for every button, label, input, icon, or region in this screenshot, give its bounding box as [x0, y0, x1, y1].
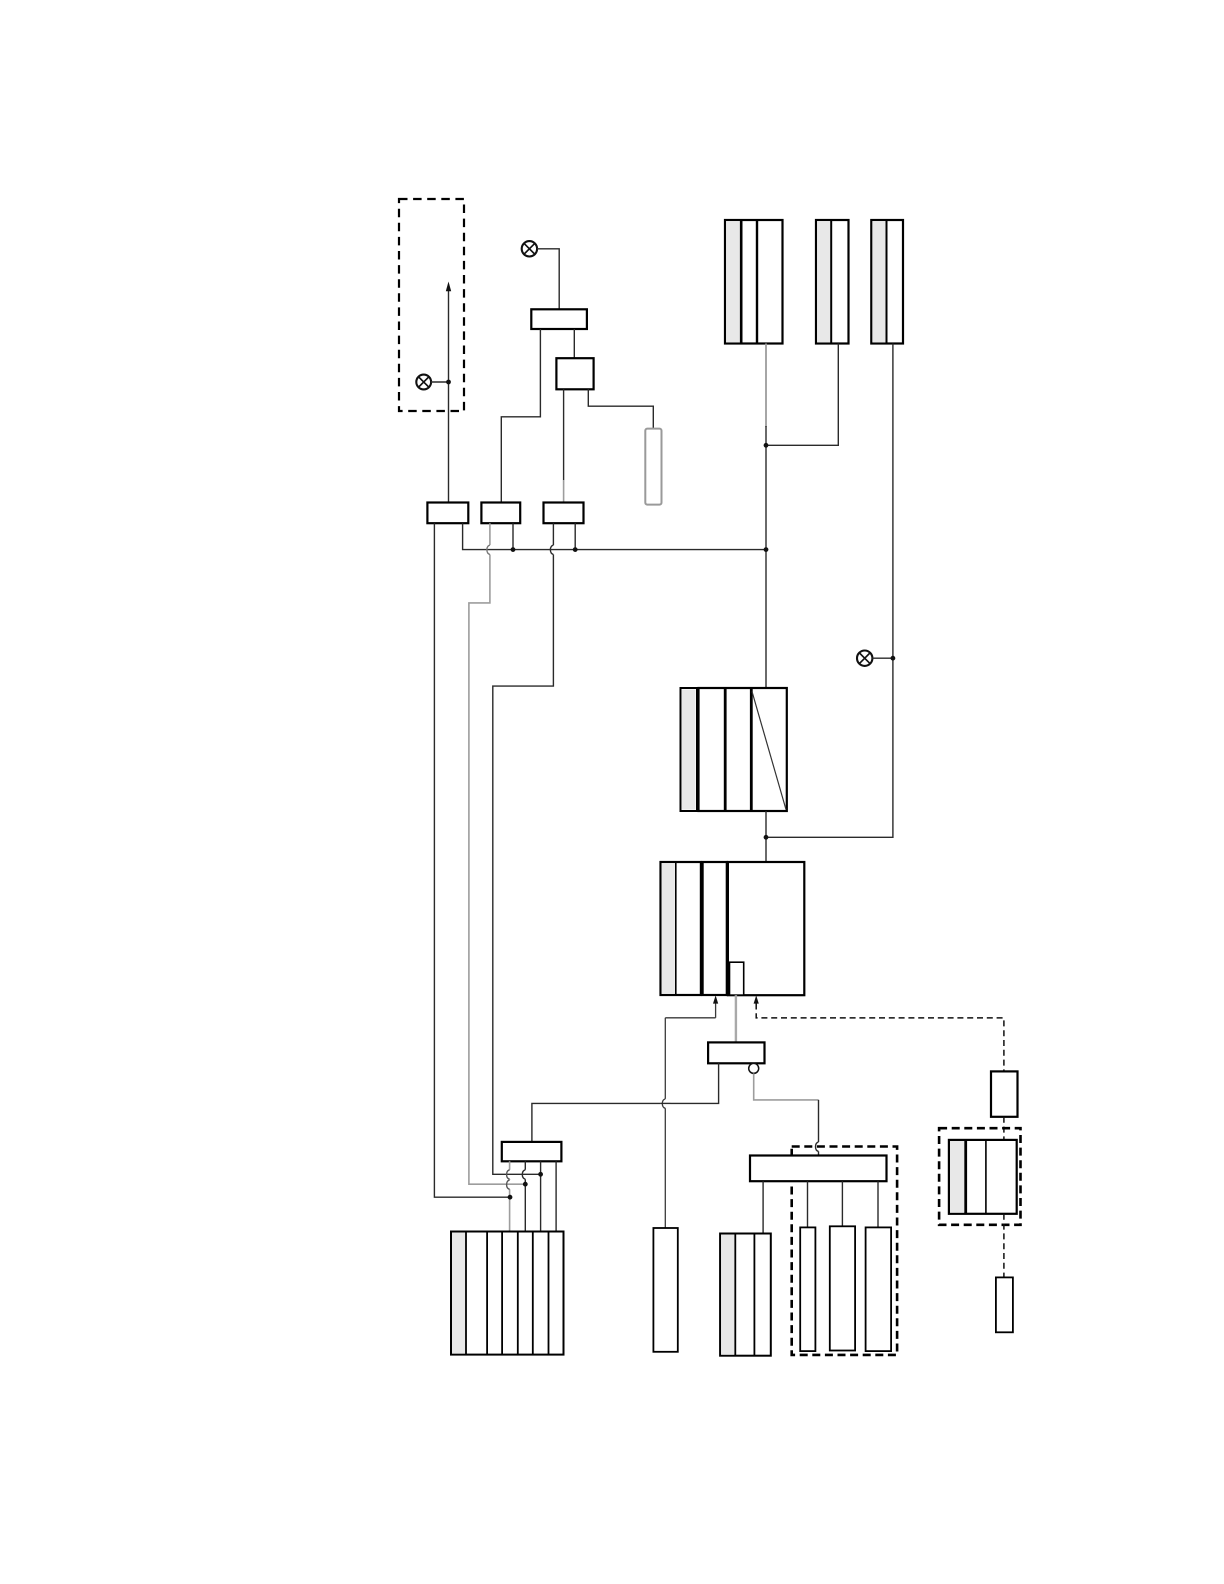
wire (connector C right lead)	[574, 523, 576, 549]
node (C on bus)	[573, 547, 578, 552]
switch S1	[531, 309, 587, 329]
wire (dashed control line with arrow)	[754, 995, 1004, 1071]
node (bus junction at relay feed)	[764, 547, 769, 552]
wire (grey feed from control unit to coil)	[735, 995, 737, 1042]
wire (vertical from resistor to arrow, with hop)	[664, 1018, 666, 1228]
wire (J1 down to relay)	[765, 426, 767, 688]
wire (X4 lead1 grey, with two hops)	[509, 1161, 511, 1231]
connector A	[427, 503, 468, 524]
relay K1	[681, 688, 787, 811]
wire hop (over coil feed line)	[662, 1099, 665, 1108]
wire hop (C lead over bus)	[550, 545, 553, 554]
glow plug 3	[866, 1227, 892, 1351]
contact circle under coil	[749, 1063, 759, 1073]
node (lead2 junction)	[523, 1182, 528, 1187]
wire (dashed, J6 down to sensor 2)	[1003, 1214, 1005, 1278]
wire (speed signal, vertical with arrow)	[446, 282, 451, 503]
distribution bar	[750, 1156, 887, 1182]
wire (connector A right lead to bus)	[463, 523, 766, 549]
switch S2	[556, 358, 593, 389]
dashed enclosure (right bottom group)	[792, 1147, 897, 1355]
wire (S2 to fuse)	[588, 389, 653, 428]
wire (J2 branch)	[766, 344, 838, 446]
node (junction under relay)	[764, 835, 769, 840]
node (B on bus)	[511, 547, 516, 552]
glow plug 2	[830, 1226, 855, 1350]
junction block J6 (in dashed enclosure)	[949, 1140, 1017, 1214]
coil (solenoid)	[708, 1042, 764, 1063]
wire (S2 to connector C, grey part)	[563, 480, 565, 503]
wire (J3 long vertical)	[766, 344, 893, 838]
node (junction on meter wire)	[446, 380, 451, 385]
dashed enclosure (sensor block)	[939, 1128, 1020, 1225]
sensor (small box on dashed line)	[991, 1071, 1018, 1116]
wire (lamp to switch S1)	[537, 249, 559, 309]
node (J2 joins J1 wire)	[764, 443, 769, 448]
wire (X4 lead2, one hop)	[524, 1161, 526, 1231]
resistor (tall, bottom middle)	[653, 1228, 677, 1352]
wire (straight part of coil line across hop)	[660, 1102, 670, 1104]
wire (bar to glow plug 3)	[877, 1181, 879, 1227]
wire (contact to distribution bar, grey part)	[754, 1073, 819, 1100]
wire (connector A left lead, long run to lead1)	[434, 523, 510, 1197]
wire (X4 lead4)	[555, 1161, 557, 1231]
node (lead1 junction)	[508, 1195, 513, 1200]
wire (connector B left lead, grey long run)	[469, 523, 525, 1184]
wire hop (lead1 over black feeder)	[507, 1170, 510, 1179]
wire (down to distribution bar, with hop over dashed box)	[818, 1100, 820, 1156]
sensor 2 (bottom small box)	[996, 1277, 1013, 1332]
wire (bar to junction block J5)	[762, 1181, 764, 1233]
wire (dashed, sensor down)	[1003, 1117, 1005, 1140]
wire (relay to control unit)	[765, 811, 767, 862]
wire (coil to connector X4, with hop)	[532, 1063, 719, 1142]
wire (connector C left lead, long run to lead3)	[493, 523, 554, 1174]
wire hop (grey lead over bus)	[487, 545, 490, 554]
junction block J5	[720, 1234, 771, 1356]
fuse F1	[645, 429, 661, 505]
junction block J4 (bottom left)	[451, 1232, 564, 1355]
junction block J2	[816, 220, 849, 344]
indicator lamp (in meter)	[416, 375, 448, 390]
connector C	[544, 503, 584, 524]
connector B	[481, 503, 520, 524]
indicator lamp (top)	[522, 241, 537, 256]
node (lamp on J3 wire)	[891, 656, 896, 661]
wire (S1 to switch S2)	[573, 329, 575, 358]
junction block J3	[871, 220, 903, 344]
wire (bar to glow plug 2)	[841, 1181, 843, 1226]
wire (connector B right lead)	[512, 523, 514, 549]
wire hop (over dashed border)	[816, 1142, 819, 1151]
wire (J1 feed, grey segment)	[765, 344, 767, 428]
wire (S2 to connector C, black part)	[563, 389, 565, 480]
wire hop (lead2 over black feeder)	[522, 1170, 525, 1179]
dashed enclosure (combination meter)	[399, 199, 464, 411]
wire (arrow feedback into control unit)	[665, 995, 718, 1017]
wire (S1 to connector B)	[501, 329, 540, 503]
wire (bar to glow plug 1)	[807, 1181, 809, 1227]
wire hop (lead1 over grey feeder)	[507, 1180, 510, 1189]
glow plug 1	[800, 1227, 815, 1351]
wire (X4 lead3)	[540, 1161, 542, 1231]
control unit U1	[661, 862, 805, 995]
connector X4	[502, 1142, 562, 1161]
junction block J1	[725, 220, 783, 344]
node (lead3 junction)	[538, 1172, 543, 1177]
indicator lamp (at relay feed line)	[857, 651, 893, 666]
